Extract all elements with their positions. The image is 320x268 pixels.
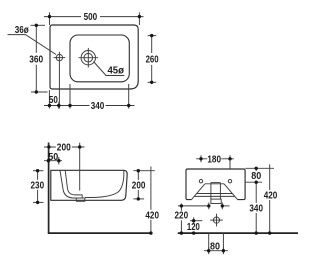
drain crosshair horizontal: [79, 57, 99, 59]
side dim 230 line: [37, 171, 39, 203]
dim 500 right tick: [138, 12, 140, 25]
rear drain circle: [213, 217, 219, 223]
rear dim 80 bottom tick b: [222, 247, 224, 254]
svg-text:180: 180: [207, 154, 221, 165]
dim 260 line: [151, 36, 153, 83]
rear column left: [210, 183, 212, 200]
side view floor line: [48, 232, 153, 234]
dim 360 line: [35, 25, 37, 92]
side dim 230 top tick: [33, 170, 44, 172]
rear dim 120 line: [190, 220, 202, 222]
rear horizontal line 2: [194, 195, 234, 197]
svg-text:220: 220: [175, 211, 189, 222]
rear dim 220 line b: [222, 205, 229, 207]
rear right diagonal: [224, 184, 237, 200]
side dim 200 right bottom tick: [133, 198, 144, 200]
leader 45: [94, 62, 125, 76]
dim 260 top tick: [148, 35, 157, 37]
rear dim 80 bottom line: [204, 250, 228, 252]
rear dim 180 left tick: [200, 155, 202, 162]
svg-text:36ø: 36ø: [15, 25, 30, 36]
svg-text:360: 360: [29, 54, 43, 65]
rear wall ext vertical: [180, 204, 182, 234]
svg-text:230: 230: [31, 180, 45, 191]
svg-text:200: 200: [57, 143, 71, 154]
top view inner bowl: [70, 35, 129, 82]
side top ext line right: [133, 170, 154, 172]
white gaps behind texts: [28, 11, 277, 220]
side dim 200 top line: [44, 146, 85, 148]
arrow dots: [35, 15, 272, 253]
dim 500 left tick: [49, 12, 51, 25]
rear holes ext line: [245, 181, 262, 183]
rear dim 220 tick a: [208, 203, 210, 210]
rear bottom ext left: [208, 233, 210, 252]
svg-text:120: 120: [187, 222, 200, 233]
drain inner circle: [84, 53, 93, 62]
dim 360 top tick: [31, 24, 46, 26]
side dim 50 right tick: [58, 157, 60, 165]
tick 50 right: [58, 102, 60, 109]
side dim 200 right line: [137, 171, 139, 199]
dim 50-340 baseline: [44, 105, 135, 107]
svg-text:45ø: 45ø: [107, 65, 124, 76]
svg-text:340: 340: [91, 101, 105, 112]
rear dim 220 line: [178, 205, 209, 207]
side dim 230 bottom tick: [33, 201, 44, 203]
svg-text:50: 50: [48, 152, 58, 163]
rear hole right: [228, 180, 231, 183]
rear dim 420 line: [269, 164, 271, 233]
rear dim 220 tick b: [221, 203, 223, 210]
svg-text:200: 200: [132, 181, 146, 192]
side dim 200 left tick: [48, 143, 50, 152]
rear trapezoid top line: [205, 183, 224, 185]
side dim 420 line: [150, 167, 152, 234]
svg-text:340: 340: [249, 204, 263, 215]
side view tap axis line: [79, 143, 81, 191]
drain crosshair vertical: [87, 48, 89, 68]
rear drain crosshair vertical: [216, 214, 218, 227]
rear dim 120 tick: [193, 217, 195, 224]
rear dim 180 right ext: [229, 155, 231, 169]
dim 360 bottom tick: [31, 91, 48, 93]
dim 260 bottom tick: [148, 81, 157, 83]
svg-text:500: 500: [84, 12, 98, 23]
ext line 340 left: [69, 84, 71, 109]
side view bowl back inner line: [60, 171, 85, 199]
rear horizontal line 1: [197, 193, 232, 195]
svg-text:420: 420: [145, 210, 159, 221]
leader 36: [8, 35, 57, 55]
svg-text:50: 50: [49, 95, 58, 106]
rear floor line: [178, 232, 298, 234]
rear dim 80 line: [255, 168, 257, 182]
side view bowl bottom curve: [85, 171, 124, 198]
ext line 340 right: [128, 84, 130, 109]
side view drain bump: [76, 198, 85, 201]
dim 500 line: [44, 16, 144, 18]
tap hole circle: [56, 54, 62, 60]
svg-text:80: 80: [210, 241, 220, 252]
rear drain crosshair horizontal: [210, 219, 223, 221]
side view basin outline: [51, 170, 127, 200]
ext line left of 50 dim: [48, 90, 50, 109]
side view bowl back edge line: [65, 171, 82, 199]
rear dim 180 line: [196, 158, 234, 160]
tap hole crosshair vertical + extension to 50 dim: [58, 52, 60, 109]
svg-text:420: 420: [264, 191, 278, 202]
side view wall line: [48, 143, 50, 234]
svg-text:80: 80: [251, 171, 261, 182]
side dim 50 line: [44, 160, 62, 162]
rear bottom ext right: [222, 233, 224, 252]
drain outer circle: [81, 51, 95, 65]
rear dim 340 line: [255, 182, 257, 233]
rear top ext line: [245, 167, 274, 169]
top view outer rim: [50, 25, 138, 89]
svg-text:260: 260: [146, 55, 159, 66]
rear left diagonal: [192, 184, 205, 200]
rear view body: [186, 169, 245, 200]
rear column lower box: [211, 199, 221, 203]
rear column right: [219, 183, 221, 200]
rear column top: [211, 182, 221, 184]
tap hole crosshair horizontal: [54, 57, 66, 59]
rear dim 80 bottom tick a: [208, 247, 210, 254]
rear hole left: [199, 180, 202, 183]
